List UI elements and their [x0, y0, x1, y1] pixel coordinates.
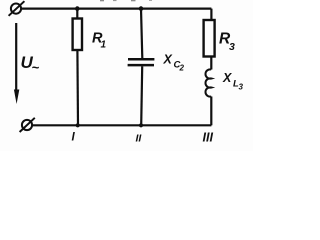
svg-text:3: 3 [229, 41, 235, 53]
svg-text:~: ~ [32, 60, 40, 75]
svg-text:1: 1 [101, 40, 107, 51]
svg-text:II: II [136, 133, 143, 145]
svg-text:III: III [203, 131, 214, 145]
svg-text:I: I [72, 132, 76, 144]
svg-text:X: X [163, 53, 173, 67]
svg-text:2: 2 [179, 64, 185, 73]
svg-text:3: 3 [239, 83, 244, 92]
svg-text:X: X [222, 71, 232, 85]
